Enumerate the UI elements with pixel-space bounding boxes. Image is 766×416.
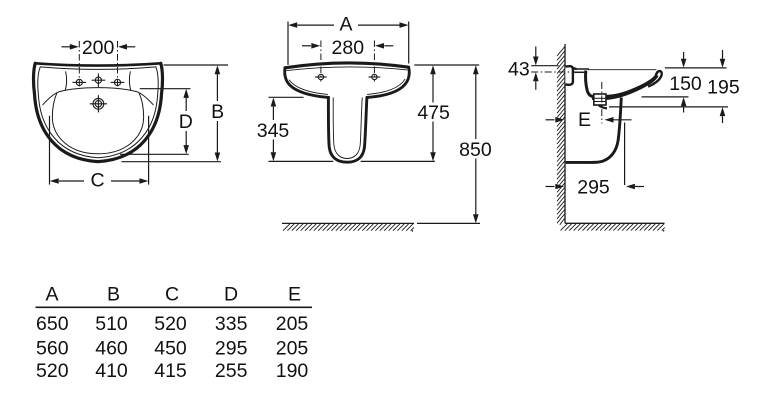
150 top arrow: [683, 52, 685, 59]
dimension A: [288, 22, 409, 65]
drain nut: [594, 94, 606, 105]
svg-text:43: 43: [508, 59, 530, 81]
dimension C: [50, 116, 149, 185]
inner top line: [287, 67, 407, 71]
inner lower-right line: [367, 79, 405, 94]
svg-text:650: 650: [36, 313, 69, 335]
pedestal profile: [566, 98, 622, 163]
svg-text:475: 475: [417, 102, 450, 124]
tap hole left: [73, 79, 87, 85]
right edge: [367, 67, 409, 97]
svg-text:335: 335: [215, 313, 248, 335]
svg-text:410: 410: [95, 360, 128, 382]
svg-text:280: 280: [332, 37, 365, 59]
dimension E: [546, 119, 555, 121]
svg-text:A: A: [45, 283, 58, 305]
svg-text:150: 150: [669, 73, 702, 95]
floor line (front view): [282, 222, 414, 224]
outer outline: [35, 63, 161, 65]
bracket nub: [572, 68, 576, 70]
left edge: [285, 68, 329, 98]
basin back edge: [586, 71, 593, 97]
pedestal outer: [328, 97, 367, 162]
svg-text:B: B: [211, 101, 224, 123]
basin rim thin line: [588, 69, 657, 71]
top edge: [285, 63, 409, 68]
bowl front curl: [648, 71, 662, 87]
floor line (side view): [565, 222, 665, 224]
wall line: [564, 44, 566, 223]
svg-text:460: 460: [95, 338, 128, 360]
dimension 200: [62, 46, 136, 48]
svg-text:295: 295: [215, 338, 248, 360]
rim connector bar: [575, 68, 590, 70]
deck side curve right: [129, 72, 130, 90]
centerline tap right: [117, 41, 119, 89]
svg-text:B: B: [107, 283, 120, 305]
bowl: [52, 93, 143, 154]
dimension 345: [269, 97, 334, 161]
E centerline: [601, 82, 603, 124]
inner lower-left line: [289, 80, 327, 94]
floor hatching (front view): [283, 224, 414, 231]
pedestal inner lines: [333, 98, 362, 159]
svg-text:520: 520: [154, 313, 187, 335]
bowl top arc with corner sweeps: [43, 88, 153, 105]
front tap hole right: [369, 74, 381, 79]
svg-text:205: 205: [276, 313, 309, 335]
svg-text:D: D: [224, 283, 238, 305]
svg-text:850: 850: [459, 139, 492, 161]
svg-text:450: 450: [154, 338, 187, 360]
svg-text:415: 415: [154, 360, 187, 382]
svg-text:200: 200: [82, 37, 115, 59]
tap hole right: [111, 79, 125, 85]
svg-text:205: 205: [276, 338, 309, 360]
svg-text:E: E: [288, 283, 301, 305]
dimension 150 / 195 top extension: [665, 67, 727, 69]
295 extension line: [624, 123, 626, 186]
deck side curve left: [65, 72, 66, 90]
trap stub below nut: [599, 105, 608, 108]
svg-text:560: 560: [36, 338, 69, 360]
svg-text:A: A: [339, 14, 352, 36]
dimension 43: [531, 47, 558, 90]
svg-text:345: 345: [257, 120, 290, 142]
svg-text:520: 520: [36, 360, 69, 382]
svg-text:C: C: [165, 283, 179, 305]
centerline tap left: [78, 41, 80, 89]
svg-text:510: 510: [95, 313, 128, 335]
bowl underside (filled crescent): [592, 74, 659, 100]
svg-text:295: 295: [577, 177, 610, 199]
svg-text:255: 255: [215, 360, 248, 382]
front tap hole left: [315, 74, 327, 79]
svg-text:C: C: [90, 169, 104, 191]
wall bracket: [565, 66, 573, 85]
195 bottom extension: [609, 106, 728, 108]
svg-text:E: E: [578, 109, 591, 131]
drain: [90, 95, 107, 112]
svg-text:D: D: [179, 111, 193, 133]
front centerlines: [320, 41, 322, 82]
tap hole center: [92, 73, 106, 87]
dimension D: [120, 89, 191, 155]
svg-text:195: 195: [707, 77, 740, 99]
150 bottom extension: [642, 96, 689, 98]
table rule: [36, 306, 313, 308]
dimension 850: [417, 74, 480, 223]
wall hatching: [557, 47, 565, 225]
195 top arrow: [722, 50, 724, 59]
floor hatching (side view): [561, 224, 665, 231]
dimension 295: [546, 186, 555, 188]
dimension 280: [302, 45, 393, 47]
dimension 475: [361, 65, 480, 161]
svg-text:190: 190: [276, 360, 309, 382]
dimension B: [121, 65, 228, 162]
inner outline: [40, 67, 156, 70]
